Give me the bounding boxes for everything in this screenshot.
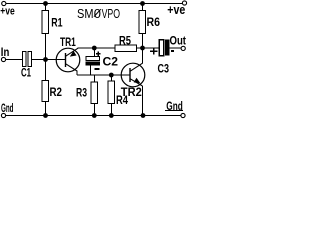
svg-text:+ve: +ve (0, 5, 14, 17)
node dot R3/rail (92, 113, 97, 118)
terminal In (1, 57, 5, 61)
svg-text:C2: C2 (103, 55, 119, 69)
wire bottom Gnd rail (6, 115, 182, 117)
svg-text:R3: R3 (76, 86, 87, 100)
svg-text:In: In (1, 45, 10, 59)
wire TR2 emitter down (142, 86, 144, 116)
wire R1 column (45, 4, 47, 81)
capacitor C2 (86, 48, 101, 75)
transistor TR1 (56, 48, 80, 72)
wire R4 to rail (110, 104, 112, 116)
terminal Gnd left (1, 113, 5, 117)
node dot R6/C3 (140, 46, 145, 51)
resistor R1 (42, 11, 49, 34)
wire R5 to node (137, 47, 143, 49)
svg-text:Gnd: Gnd (1, 101, 14, 115)
svg-text:VPO: VPO (102, 6, 121, 21)
wire R6 column (142, 4, 144, 49)
node dot rail/R1 (43, 1, 48, 6)
wire R2 to rail (45, 102, 47, 116)
resistor R6 (139, 11, 146, 34)
wire top +ve rail (6, 3, 183, 5)
wire R3 top lead (93, 75, 95, 82)
wire base TR1 (46, 59, 66, 61)
node dot R4/rail (109, 113, 114, 118)
node dot R2/rail (43, 113, 48, 118)
wire R3 to rail (93, 104, 95, 116)
svg-text:R2: R2 (50, 85, 63, 99)
svg-text:TR1: TR1 (60, 35, 76, 49)
node dot TR2/rail (141, 113, 146, 118)
node dot input (43, 57, 48, 62)
transistor TR2 (121, 63, 145, 87)
wire TR1 collector down (76, 71, 78, 76)
svg-text:R4: R4 (116, 93, 128, 107)
svg-text:R1: R1 (51, 15, 63, 29)
capacitor C3 (143, 40, 182, 56)
wire In to C1 (6, 59, 23, 61)
terminal Out (181, 46, 185, 50)
capacitor C1 (23, 52, 27, 67)
svg-text:R5: R5 (119, 34, 131, 48)
terminal +ve left (2, 1, 6, 5)
wire C1 to node (32, 59, 46, 61)
svg-text:C3: C3 (158, 61, 170, 75)
resistor R4 (108, 81, 115, 104)
wire TR1 emitter-top to node (78, 47, 116, 49)
underline Gnd right (165, 110, 183, 112)
wire emitter row (77, 74, 130, 76)
wire TR2 collector up (142, 48, 144, 64)
svg-text:Out: Out (170, 33, 187, 47)
terminal +ve right (182, 1, 186, 5)
resistor R5 (115, 45, 137, 52)
node dot R4 top (109, 73, 114, 78)
svg-text:+ve: +ve (167, 3, 185, 17)
resistor R3 (91, 82, 98, 104)
slash of zero in SM0VPO (94, 9, 101, 16)
node dot rail/R6 (140, 1, 145, 6)
svg-text:R6: R6 (147, 15, 161, 29)
resistor R2 (42, 81, 49, 102)
svg-text:C1: C1 (21, 66, 31, 80)
svg-text:SM: SM (77, 6, 94, 21)
node dot C2 top (92, 46, 97, 51)
terminal Gnd right (181, 113, 185, 117)
wire R4 top lead (110, 75, 112, 81)
